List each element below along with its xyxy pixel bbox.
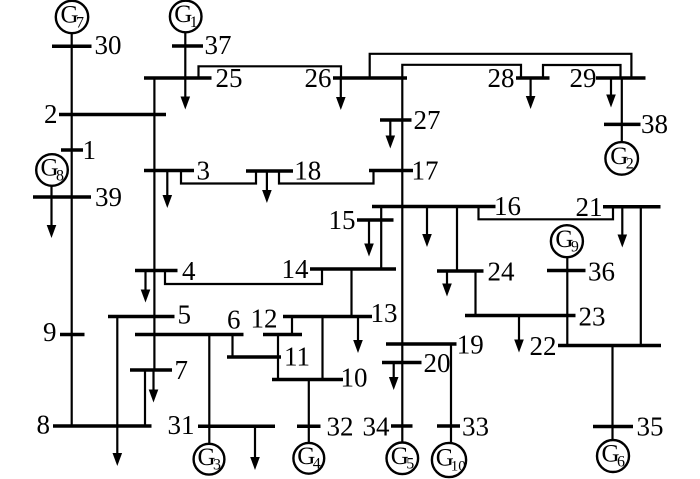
svg-text:37: 37: [205, 30, 232, 60]
bus 7 bar: [130, 368, 172, 372]
svg-text:29: 29: [570, 63, 597, 93]
wire 12-11-10: [277, 335, 279, 380]
load bus 31: [250, 426, 260, 470]
wire 13-12: [291, 317, 293, 335]
wire 25-2-3-4-5-6-7: [153, 78, 155, 370]
svg-text:17: 17: [412, 156, 439, 186]
bus 39 bar: [33, 195, 91, 199]
bus 31 bar: [198, 425, 275, 429]
load bus 23: [514, 316, 524, 353]
bus 33 bar: [437, 424, 460, 428]
wire 13-10: [321, 317, 323, 380]
wire 3-18: [181, 171, 256, 184]
wire 30-2-1-39-9-8: [71, 33, 73, 426]
svg-text:11: 11: [284, 341, 310, 371]
bus 29 bar: [596, 76, 646, 80]
svg-text:38: 38: [641, 109, 668, 139]
bus 10 bar: [272, 378, 343, 382]
load bus 26: [336, 78, 346, 110]
svg-text:6: 6: [617, 453, 625, 470]
bus 15 bar: [357, 218, 394, 222]
bus 23 bar: [465, 314, 576, 318]
svg-text:8: 8: [37, 410, 51, 440]
bus 6 bar: [135, 333, 244, 337]
svg-text:7: 7: [76, 14, 84, 31]
generator G1: [170, 1, 202, 33]
wire G1 to 37-25: [184, 32, 186, 79]
load bus 13: [353, 317, 363, 354]
load bus 24: [442, 271, 452, 297]
load bus 4: [141, 271, 151, 303]
svg-text:1: 1: [190, 14, 198, 31]
bus 22 bar: [558, 344, 661, 348]
wire 14-13: [350, 269, 352, 317]
svg-text:12: 12: [251, 304, 278, 334]
svg-text:5: 5: [178, 299, 192, 329]
svg-text:8: 8: [56, 167, 64, 184]
wire 19-33 to G10: [450, 344, 452, 443]
bus 4 bar: [135, 269, 178, 273]
generator G8: [36, 154, 68, 186]
svg-text:39: 39: [95, 182, 122, 212]
bus 38 bar: [604, 123, 641, 127]
wire 22-35 to G6: [611, 346, 613, 441]
svg-text:7: 7: [175, 355, 189, 385]
bus 21 bar: [603, 205, 661, 209]
svg-text:4: 4: [313, 456, 321, 473]
bus 14 bar: [310, 267, 396, 271]
svg-text:32: 32: [327, 412, 354, 442]
wire 5-8 and load bus 8: [113, 317, 123, 467]
svg-text:14: 14: [282, 254, 310, 284]
svg-text:18: 18: [294, 156, 321, 186]
bus 28 bar: [516, 76, 550, 80]
bus 17 bar: [369, 169, 413, 173]
bus 12 bar: [263, 333, 302, 337]
wire 6-31 to G3: [208, 335, 210, 444]
svg-text:2: 2: [626, 156, 634, 173]
bus 9 bar: [60, 333, 85, 337]
svg-text:22: 22: [530, 331, 557, 361]
svg-text:19: 19: [457, 329, 484, 359]
svg-text:5: 5: [406, 456, 414, 473]
svg-text:33: 33: [462, 411, 489, 441]
load bus 3: [163, 171, 173, 209]
load bus 16: [422, 207, 432, 248]
generator G10: [432, 443, 466, 477]
svg-text:9: 9: [571, 239, 579, 256]
svg-text:15: 15: [329, 205, 356, 235]
load bus 25: [181, 78, 191, 110]
svg-text:2: 2: [44, 99, 58, 129]
svg-text:26: 26: [305, 63, 332, 93]
bus 34 bar: [391, 424, 413, 428]
svg-text:9: 9: [43, 317, 57, 347]
generator G9: [551, 225, 583, 257]
bus 20 bar: [382, 361, 422, 365]
bus 3 bar: [144, 169, 194, 173]
generator G6: [597, 440, 629, 472]
bus 24 bar: [437, 269, 484, 273]
bus 36 bar: [547, 269, 586, 273]
wire 29-38 to G2: [621, 78, 623, 142]
svg-text:21: 21: [576, 192, 603, 222]
svg-text:16: 16: [494, 191, 521, 221]
wire 26-28: [402, 65, 521, 78]
bus 25 bar: [144, 76, 212, 80]
load bus 18: [262, 171, 272, 203]
bus 27 bar: [380, 118, 412, 122]
svg-text:31: 31: [168, 410, 195, 440]
wire 21-22: [640, 207, 642, 346]
svg-text:6: 6: [227, 304, 241, 334]
generator G3: [194, 444, 225, 475]
svg-text:23: 23: [579, 301, 606, 331]
bus 8 bar: [53, 424, 152, 428]
wire 24-23: [474, 271, 476, 316]
bus 32 bar: [297, 425, 321, 429]
wire 16-24: [456, 207, 458, 272]
svg-text:34: 34: [363, 411, 391, 441]
wire 10-32 to G4: [308, 380, 310, 444]
wire 4-14: [165, 269, 322, 284]
bus 5 bar: [108, 315, 175, 319]
wire 26-29: [370, 54, 632, 78]
svg-text:35: 35: [637, 411, 664, 441]
bus 18 bar: [246, 169, 293, 173]
svg-text:27: 27: [414, 105, 441, 135]
svg-text:24: 24: [488, 256, 516, 286]
wire 18-17: [279, 171, 374, 184]
generator G4: [293, 443, 324, 474]
bus 35 bar: [593, 425, 633, 429]
svg-text:36: 36: [588, 256, 615, 286]
wire 16-15-14: [380, 207, 382, 270]
wire 16-21: [479, 207, 614, 220]
wire 26-27-17-16-19-20-34 to G5: [401, 78, 403, 443]
svg-text:28: 28: [488, 63, 515, 93]
load bus 21: [618, 207, 628, 248]
load bus 20: [389, 363, 399, 391]
generator G2: [605, 142, 638, 175]
load bus 28: [526, 78, 536, 109]
svg-text:4: 4: [182, 256, 196, 286]
bus 16 bar: [372, 205, 496, 209]
load bus 29: [606, 78, 616, 108]
bus 37 bar: [172, 44, 203, 48]
wire 6-11: [231, 335, 233, 358]
svg-text:1: 1: [83, 135, 97, 165]
load bus 27: [386, 120, 396, 149]
svg-text:30: 30: [95, 30, 122, 60]
generator G7: [56, 1, 88, 33]
bus 26 bar: [333, 76, 407, 80]
wire 28-29: [543, 65, 621, 78]
load bus 15: [364, 220, 374, 257]
bus 30 bar: [52, 45, 92, 49]
wire 7-8: [144, 370, 146, 426]
load bus 7: [149, 370, 159, 403]
svg-text:10: 10: [341, 363, 368, 393]
svg-text:25: 25: [216, 63, 243, 93]
bus 19 bar: [386, 342, 457, 346]
bus 11 bar: [227, 355, 281, 359]
svg-text:20: 20: [424, 348, 451, 378]
svg-text:3: 3: [197, 156, 211, 186]
svg-text:13: 13: [371, 298, 398, 328]
wire G9-36-23-22: [566, 256, 568, 345]
wire G8 to 39: [50, 186, 52, 198]
bus 1 bar: [61, 148, 83, 152]
bus 2 bar: [59, 113, 166, 117]
wire 25-26: [199, 66, 342, 78]
load bus 39: [47, 197, 57, 238]
bus 13 bar: [283, 315, 372, 319]
generator G5: [387, 443, 419, 475]
svg-text:3: 3: [213, 457, 221, 474]
svg-text:10: 10: [451, 458, 466, 474]
